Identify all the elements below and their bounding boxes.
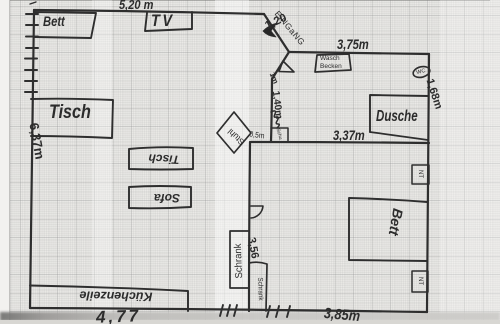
label Kuechenzeile upside down [79, 288, 152, 303]
entrance door swing (filled) [263, 23, 277, 37]
label 3,85m [323, 305, 361, 324]
label 6,37m [26, 122, 47, 161]
bathroom door diagonal wall [272, 52, 289, 79]
bathroom top wall [289, 52, 429, 54]
label 3,56 [245, 236, 261, 259]
bett box top-left [34, 12, 96, 38]
label 1,68m [423, 77, 444, 110]
label Tisch big [49, 102, 91, 124]
nt box 2 [412, 271, 428, 292]
schrank tall box [230, 231, 248, 288]
slash marks bottom wall left set [220, 305, 237, 316]
label 3,37m [333, 127, 365, 143]
ruler ticks on left wall [25, 2, 38, 92]
squiggle on hallway wall [271, 111, 279, 128]
label NT 1 [417, 170, 423, 178]
left wall [30, 10, 34, 308]
label Bett bedroom [386, 207, 406, 237]
label 1,40m [270, 90, 284, 119]
light scan bands [215, 0, 249, 324]
label 1m [268, 71, 281, 85]
bathroom door swing (filled triangle) [279, 61, 294, 72]
divider wall living/bedroom [249, 142, 250, 311]
wc oval [412, 65, 431, 79]
right wall [427, 54, 429, 312]
bottom wall [30, 308, 427, 312]
label Stuhl in diamond [226, 127, 247, 148]
label NT 2 [417, 277, 423, 285]
label wasch becken [320, 55, 342, 70]
label heiz tiny [275, 128, 284, 141]
wasch becken box [315, 54, 351, 72]
schrank small box bedroom [249, 262, 267, 311]
bathroom bottom wall [251, 142, 429, 143]
hallway wall 1,40m [271, 79, 272, 141]
label Tisch small (upside down) [148, 151, 180, 167]
label Schrank bedroom [256, 277, 264, 300]
wire: outer walls [30, 10, 429, 312]
label 1,20 [263, 12, 288, 32]
slash marks bottom wall right set [267, 306, 290, 317]
label Sofa (upside down) [154, 191, 180, 205]
tisch big box [31, 99, 113, 138]
label Dusche [376, 108, 418, 126]
tv box [145, 12, 192, 31]
bett bedroom box [349, 198, 427, 261]
dusche box [370, 95, 428, 132]
kueche box [30, 286, 188, 312]
label 3,75m [337, 36, 369, 52]
label 0,5m [249, 129, 265, 140]
door arc on divider wall [251, 206, 263, 218]
entrance diagonal wall [264, 14, 289, 52]
tisch small box [129, 147, 193, 169]
bottom scanner shadow band [0, 312, 500, 321]
nt box 1 [412, 165, 429, 184]
heiz box near hallway [271, 128, 288, 141]
label 4,77 [96, 306, 142, 324]
label wc [416, 68, 426, 76]
sofa box [129, 186, 191, 208]
label Schrank tall [233, 243, 245, 278]
left white scan margin [0, 0, 9, 324]
label TV [151, 11, 175, 31]
label Eingang [273, 9, 308, 48]
stuhl diamond [217, 112, 251, 153]
top wall [34, 10, 264, 14]
label 5,20m [119, 0, 153, 12]
label Bett top-left [43, 13, 65, 29]
